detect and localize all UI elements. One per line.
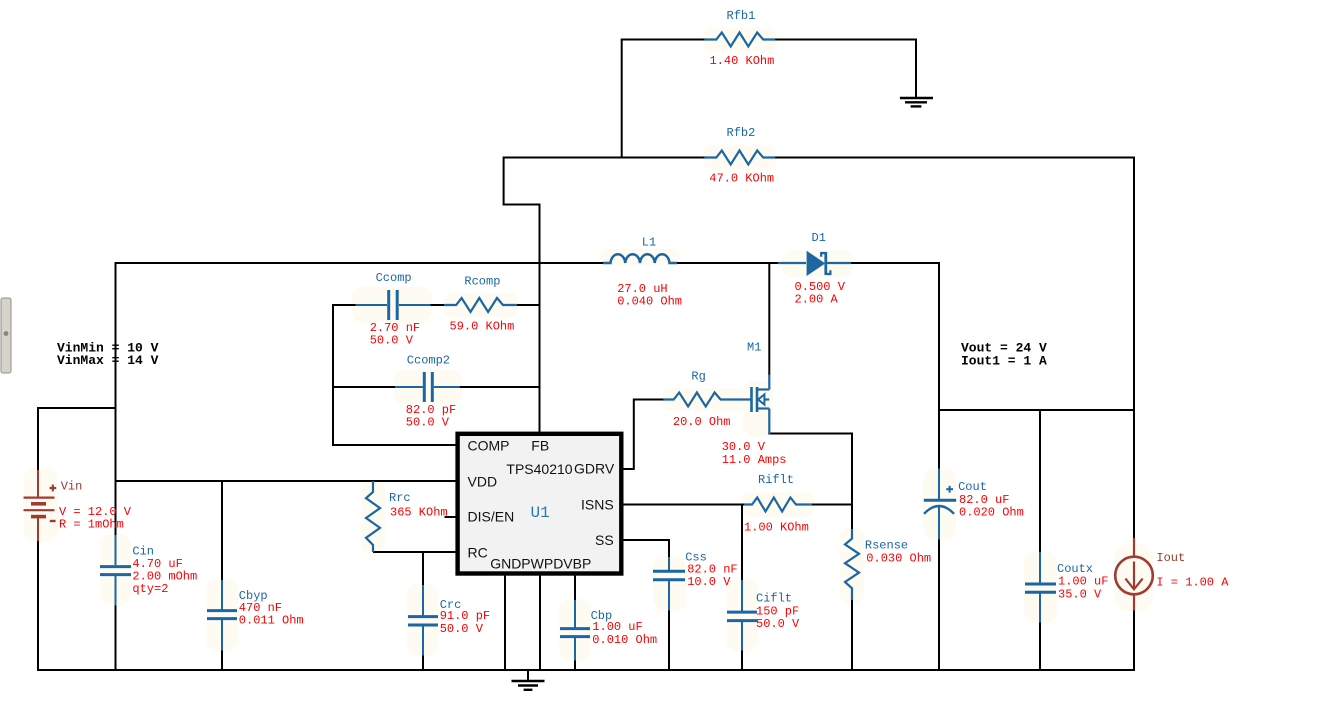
resistor Rg: [663, 393, 750, 407]
diode D1: [778, 251, 851, 276]
wire Coutx branch top: [1039, 409, 1041, 553]
svg-text:47.0 KOhm: 47.0 KOhm: [709, 172, 774, 186]
ground top: [900, 98, 933, 106]
wire battery bottom: [37, 541, 39, 672]
transistor M1: [752, 375, 770, 435]
svg-text:Rfb2: Rfb2: [727, 126, 756, 140]
wire Rsense bottom: [851, 600, 853, 671]
wire Rfb2 rail right: [775, 157, 1135, 159]
wire Cbp bottom: [574, 660, 576, 671]
ground bottom: [512, 669, 545, 690]
wire comp network left vertical: [332, 304, 334, 446]
svg-text:50.0 V: 50.0 V: [406, 416, 450, 430]
wire main input rail: [115, 262, 604, 264]
svg-text:GNDPWPDVBP: GNDPWPDVBP: [490, 555, 591, 571]
svg-text:1.00 KOhm: 1.00 KOhm: [744, 520, 809, 534]
wire VDD rail: [115, 480, 456, 482]
svg-text:Riflt: Riflt: [758, 473, 794, 487]
svg-text:50.0 V: 50.0 V: [756, 617, 800, 631]
svg-text:Rsense: Rsense: [865, 539, 908, 553]
wire Ciflt top: [741, 504, 743, 581]
svg-text:Cout: Cout: [958, 480, 987, 494]
scrollbar handle: [1, 298, 11, 373]
svg-text:0.040 Ohm: 0.040 Ohm: [617, 295, 682, 309]
svg-text:Rrc: Rrc: [389, 491, 411, 505]
wire Cin bottom: [115, 605, 117, 671]
wire Iout branch top: [1133, 409, 1135, 539]
svg-text:Rg: Rg: [691, 369, 705, 383]
wire Rcomp right: [516, 304, 541, 306]
wire Rfb1 right to ground: [775, 40, 916, 99]
capacitor Cbyp: [207, 580, 237, 651]
svg-text:59.0 KOhm: 59.0 KOhm: [450, 320, 515, 334]
svg-text:Iout1 = 1 A: Iout1 = 1 A: [961, 353, 1047, 368]
wire M1 drain: [768, 262, 770, 376]
svg-text:L1: L1: [642, 236, 656, 250]
wire Ccomp to Rcomp: [430, 304, 446, 306]
svg-text:Rfb1: Rfb1: [727, 9, 756, 23]
wire Vout top rail: [938, 409, 1135, 411]
resistor Rfb1: [704, 33, 775, 47]
capacitor Coutx: [1025, 552, 1056, 623]
wire PWPD pin: [539, 576, 541, 671]
svg-text:0.011 Ohm: 0.011 Ohm: [239, 614, 304, 628]
wire Ccomp2 right: [460, 386, 541, 388]
wire sense column upper: [851, 433, 853, 530]
wire Coutx bottom: [1039, 622, 1041, 671]
resistor Rfb2: [704, 151, 775, 165]
svg-text:30.0 V: 30.0 V: [722, 440, 766, 454]
wire VBP pin: [574, 576, 576, 601]
svg-text:ISNS: ISNS: [581, 497, 614, 513]
capacitor Ccomp: [356, 290, 431, 320]
wire Css bottom: [668, 610, 670, 671]
wire RC rail: [373, 551, 456, 553]
capacitor Cin: [100, 535, 131, 606]
IC U1 TPS40210 body: [458, 434, 622, 574]
svg-text:GDRV: GDRV: [574, 460, 615, 476]
wire Cbyp bottom: [221, 650, 223, 671]
svg-text:Ccomp: Ccomp: [376, 271, 412, 285]
wire battery branch top: [38, 408, 117, 471]
wire SS rail: [623, 540, 670, 558]
inductor L1: [603, 254, 677, 263]
wire Crc top: [422, 551, 424, 586]
resistor Rcomp: [444, 298, 517, 312]
svg-text:SS: SS: [595, 532, 614, 548]
capacitor Cbp: [560, 600, 590, 661]
wire Iout bottom: [1133, 611, 1135, 672]
svg-text:M1: M1: [747, 340, 761, 354]
capacitor Ciflt: [727, 580, 757, 651]
svg-text:Iout: Iout: [1156, 551, 1185, 565]
wire output rail down: [938, 262, 940, 469]
wire Ccomp2 left: [332, 386, 396, 388]
svg-text:DIS/EN: DIS/EN: [468, 508, 515, 524]
svg-text:0.030 Ohm: 0.030 Ohm: [866, 552, 931, 566]
wire DIS/EN stub: [445, 516, 456, 518]
wire Ciflt bottom: [741, 650, 743, 671]
svg-text:0.020 Ohm: 0.020 Ohm: [959, 506, 1024, 520]
svg-text:1.40 KOhm: 1.40 KOhm: [710, 54, 775, 68]
wire L1 to D1: [677, 262, 779, 264]
svg-text:VDD: VDD: [468, 473, 498, 489]
svg-text:TPS40210: TPS40210: [506, 461, 572, 477]
wire Riflt right: [812, 504, 854, 506]
wire left input rail: [115, 262, 117, 536]
svg-text:2.00 A: 2.00 A: [795, 293, 839, 307]
wire COMP rail: [332, 444, 456, 446]
svg-text:I = 1.00 A: I = 1.00 A: [1156, 575, 1229, 589]
wire Crc bottom: [422, 655, 424, 671]
wire bottom ground rail: [38, 669, 1134, 671]
svg-text:FB: FB: [531, 437, 549, 453]
svg-text:RC: RC: [468, 544, 488, 560]
wire Cbyp top: [221, 480, 223, 581]
svg-text:11.0 Amps: 11.0 Amps: [722, 453, 787, 467]
wire feedback right vertical: [1133, 157, 1135, 412]
wire Rfb1 top left: [621, 39, 705, 41]
wire D1 to output node: [850, 262, 940, 264]
wire Rfb1 left vertical: [621, 40, 623, 159]
wire M1 source to sense column: [768, 433, 853, 435]
svg-text:Vin: Vin: [61, 480, 83, 494]
svg-text:20.0 Ohm: 20.0 Ohm: [673, 415, 731, 429]
svg-text:50.0 V: 50.0 V: [370, 334, 414, 348]
resistor Rrc: [366, 481, 380, 552]
svg-text:0.010 Ohm: 0.010 Ohm: [592, 633, 657, 647]
svg-text:Ciflt: Ciflt: [756, 591, 792, 605]
wire GDRV to gate loop: [623, 400, 665, 470]
wire Rfb2 rail left: [504, 157, 705, 159]
voltage source Vin battery: [24, 470, 57, 541]
wire FB vertical: [539, 204, 541, 433]
current source Iout: [1115, 538, 1153, 611]
wire Ccomp left: [332, 304, 357, 306]
svg-text:10.0 V: 10.0 V: [687, 575, 731, 589]
capacitor Css: [653, 557, 685, 611]
svg-text:COMP: COMP: [468, 437, 510, 453]
svg-text:35.0 V: 35.0 V: [1058, 587, 1102, 601]
svg-text:Ccomp2: Ccomp2: [407, 353, 450, 367]
capacitor Cout: [924, 469, 956, 540]
wire Cout to bottom rail: [938, 539, 940, 671]
wire ISNS rail: [623, 504, 745, 506]
svg-text:qty=2: qty=2: [132, 582, 168, 596]
svg-text:R = 1mOhm: R = 1mOhm: [59, 518, 124, 532]
wire FB step from Rfb2: [504, 157, 540, 205]
resistor Riflt: [744, 498, 812, 512]
svg-text:U1: U1: [531, 504, 550, 522]
capacitor Crc: [408, 585, 438, 656]
svg-text:365 KOhm: 365 KOhm: [390, 506, 448, 520]
capacitor Ccomp2: [395, 372, 460, 402]
resistor Rsense: [845, 529, 859, 600]
svg-text:VinMax = 14 V: VinMax = 14 V: [57, 353, 159, 368]
svg-text:D1: D1: [812, 231, 826, 245]
svg-text:50.0 V: 50.0 V: [440, 622, 484, 636]
wire GND pin: [504, 576, 506, 671]
svg-text:Rcomp: Rcomp: [464, 275, 500, 289]
